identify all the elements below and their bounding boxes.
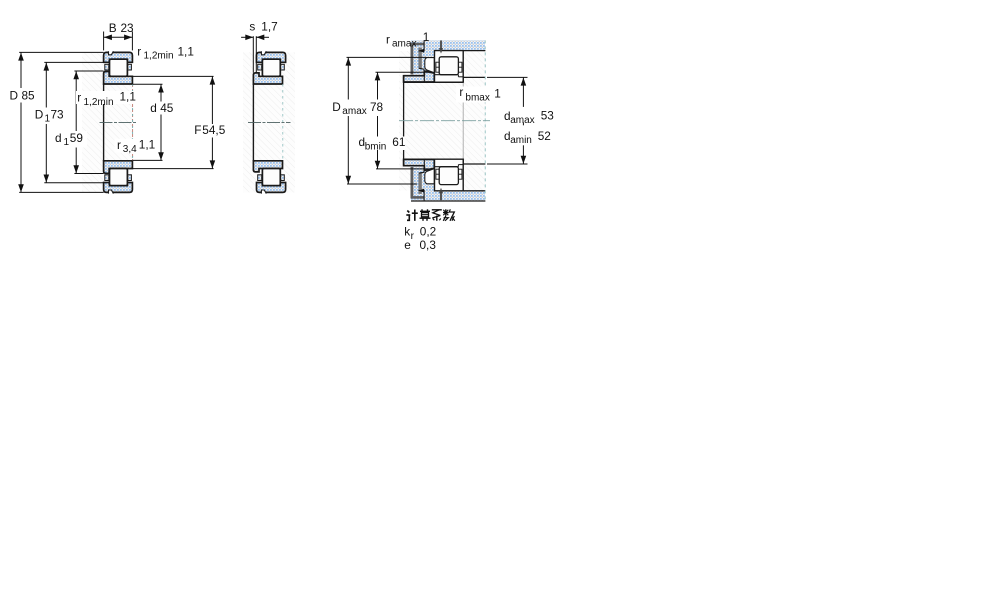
housing shoulder top: [411, 43, 435, 75]
svg-text:amax: amax: [510, 115, 534, 126]
notch top: [109, 51, 114, 55]
svg-text:0,3: 0,3: [420, 238, 437, 252]
break line right: [484, 40, 486, 201]
svg-text:amin: amin: [510, 135, 532, 146]
svg-text:73: 73: [51, 108, 65, 122]
svg-text:85: 85: [22, 89, 36, 103]
housing band top: [411, 40, 485, 50]
leader rb top: [440, 40, 442, 48]
cage right fig top: [436, 62, 439, 72]
cage bars bottom: [105, 175, 109, 181]
svg-text:r: r: [459, 85, 463, 99]
dim d 45: [132, 83, 162, 85]
middle cage top: [258, 64, 262, 70]
svg-text:D: D: [10, 89, 19, 103]
middle roller top: [262, 59, 280, 76]
roller right fig top: [439, 57, 458, 75]
notch bottom: [109, 190, 114, 194]
relief groove bottom: [418, 172, 421, 194]
roller bottom: [110, 169, 128, 186]
middle notch top: [261, 51, 266, 55]
sleeve left edge: [103, 84, 105, 161]
svg-text:amax: amax: [392, 39, 416, 50]
sleeve right edge dashed: [132, 84, 134, 161]
centerline left figure: [100, 121, 137, 123]
svg-text:d: d: [150, 101, 157, 115]
svg-text:78: 78: [370, 100, 384, 114]
shaft collar bottom: [404, 159, 435, 170]
dim D 85: [19, 51, 103, 53]
dim B: [103, 32, 105, 51]
svg-text:B: B: [109, 21, 117, 35]
dim d1 59: [74, 70, 103, 72]
svg-text:r: r: [77, 91, 81, 105]
middle: outer ring bottom: [257, 183, 286, 193]
svg-text:s: s: [249, 20, 255, 34]
left figure: inner ring top section: [104, 72, 133, 85]
svg-text:1,1: 1,1: [139, 138, 155, 152]
left figure: inner ring bottom section: [104, 161, 133, 174]
shaft step face bottom: [462, 159, 464, 164]
svg-text:52: 52: [538, 129, 551, 143]
middle: inner ring top (shifted): [253, 73, 282, 84]
middle figure faint hatch: [243, 52, 295, 192]
svg-text:D: D: [35, 108, 44, 122]
white relief pocket bottom: [425, 169, 435, 184]
label r_bmax: [456, 87, 503, 103]
svg-text:23: 23: [121, 21, 135, 35]
svg-text:1,2min: 1,2min: [144, 51, 174, 62]
svg-text:54,5: 54,5: [202, 123, 225, 137]
shaft surface right top: [463, 76, 485, 78]
shaft collar top: [404, 71, 435, 82]
white relief pocket top: [425, 58, 435, 73]
svg-text:0,2: 0,2: [420, 225, 436, 239]
cage bars top: [105, 64, 109, 70]
shaft step face top: [462, 77, 464, 82]
roller top: [110, 59, 128, 76]
svg-text:D: D: [332, 100, 341, 114]
svg-text:bmax: bmax: [465, 92, 489, 103]
right bearing outline bottom section: [435, 159, 464, 191]
svg-text:k: k: [404, 225, 410, 239]
shaft seat line bottom: [404, 158, 464, 160]
shaft mid edge faint: [462, 82, 464, 159]
svg-text:3,4: 3,4: [123, 144, 137, 155]
svg-text:59: 59: [70, 131, 83, 145]
right figure faint hatch bg: [399, 51, 486, 190]
cage right fig bottom: [436, 169, 439, 179]
dim F 54,5: [132, 75, 213, 77]
svg-text:F: F: [194, 123, 201, 137]
dim d_bmin: [376, 71, 430, 73]
dim s 1,7: [252, 36, 254, 72]
faint background hatch left figure: [82, 52, 104, 192]
left figure: outer ring bottom section: [104, 183, 133, 193]
label r12min mid: [76, 91, 137, 104]
right bearing outline top section: [435, 51, 464, 83]
left figure: outer ring top section: [104, 52, 133, 62]
svg-text:bmin: bmin: [365, 141, 387, 152]
housing shoulder bottom: [411, 167, 435, 199]
svg-text:61: 61: [392, 135, 405, 149]
middle cage bottom: [258, 175, 262, 181]
svg-text:1,1: 1,1: [178, 44, 194, 58]
svg-text:1,2min: 1,2min: [84, 97, 114, 108]
label r34: [115, 139, 150, 153]
relief groove top: [418, 48, 421, 70]
leader r_amax top: [421, 41, 424, 51]
shaft surface right bottom: [463, 163, 485, 165]
shaft seat line top: [404, 81, 464, 83]
svg-text:amax: amax: [342, 106, 366, 117]
svg-text:1: 1: [423, 30, 430, 44]
svg-text:45: 45: [160, 101, 174, 115]
shaft left face: [403, 76, 405, 166]
svg-text:1: 1: [494, 86, 501, 100]
roller right fig bottom: [439, 167, 458, 185]
svg-text:1,1: 1,1: [120, 90, 136, 104]
svg-text:r: r: [137, 44, 141, 58]
middle notch bottom: [261, 190, 266, 194]
dim D_amax: [347, 56, 427, 58]
svg-text:53: 53: [541, 109, 555, 123]
housing band bottom: [411, 191, 485, 201]
dim D1 73: [44, 61, 103, 63]
right figure centerline: [399, 120, 490, 122]
svg-text:1,7: 1,7: [261, 20, 277, 34]
middle roller bottom: [262, 169, 280, 186]
svg-text:r: r: [117, 138, 121, 152]
middle centerline: [248, 121, 291, 123]
middle: inner ring bottom (shifted): [253, 161, 282, 172]
svg-text:1: 1: [64, 137, 70, 148]
middle: outer ring top: [257, 52, 286, 62]
text 计算系数 (drawn): [406, 209, 455, 221]
dim d_a right: [487, 76, 528, 78]
svg-text:e: e: [404, 238, 411, 252]
inner ring bottom line right fig: [435, 166, 459, 168]
svg-text:d: d: [55, 131, 62, 145]
svg-text:r: r: [386, 32, 390, 46]
middle sleeve edges: [252, 84, 254, 161]
inner ring top line right fig: [435, 74, 459, 76]
leader r_amax bottom: [421, 191, 424, 201]
leader rb bottom: [440, 193, 442, 201]
